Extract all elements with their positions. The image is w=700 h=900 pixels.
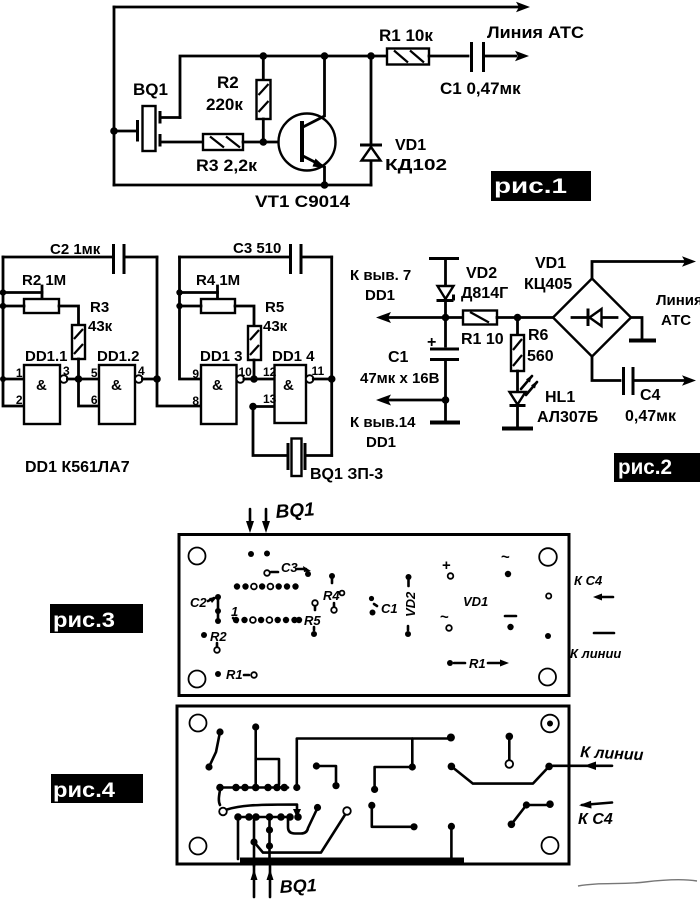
FIG1 [110, 2, 591, 211]
trace row1 [218, 786, 288, 789]
svg-text:КД102: КД102 [385, 157, 447, 174]
wire bridge right terminal [631, 318, 642, 340]
svg-text:0,47мк: 0,47мк [625, 408, 677, 425]
FIG2R [350, 255, 700, 482]
svg-text:DD1 3: DD1 3 [200, 348, 243, 365]
board outline [177, 706, 569, 864]
hole TL [189, 548, 206, 565]
LED HL1 [510, 392, 526, 405]
capacitor C4 [592, 357, 620, 381]
gate DD1.3 [201, 365, 237, 424]
hole TR [539, 548, 557, 566]
svg-text:R3 2,2к: R3 2,2к [196, 156, 257, 175]
svg-text:C3 510: C3 510 [233, 240, 281, 257]
trace diag C4 [508, 821, 516, 829]
label R1 [447, 660, 453, 666]
svg-text:КЦ405: КЦ405 [524, 276, 572, 293]
svg-text:DD1.1: DD1.1 [25, 348, 68, 365]
hole BR [542, 837, 559, 854]
svg-text:+: + [427, 334, 436, 351]
svg-text:R3: R3 [90, 299, 109, 316]
svg-text:R4 1M: R4 1M [196, 272, 240, 289]
svg-text:220к: 220к [206, 95, 243, 114]
label C3 [264, 570, 270, 576]
trace T3 long top [297, 739, 451, 788]
svg-text:рис.2: рис.2 [618, 456, 672, 479]
svg-text:VD1: VD1 [463, 594, 488, 609]
wire DD1.3 input rail [180, 257, 202, 379]
gate DD1.1 [3, 378, 24, 381]
svg-text:R5: R5 [265, 299, 284, 316]
wire left rail [3, 257, 24, 406]
label fig2 box [614, 453, 700, 482]
label R2 [201, 632, 207, 638]
svg-text:DD1: DD1 [365, 287, 395, 304]
svg-text:3: 3 [63, 364, 70, 378]
wire DD1.3 out [244, 378, 275, 381]
crystal BQ1 [287, 443, 290, 470]
minus pad [505, 615, 516, 618]
svg-text:R4: R4 [323, 588, 340, 603]
resistor R3 [203, 134, 243, 150]
node A [260, 52, 268, 60]
trace L lower [368, 802, 375, 809]
transistor VT1 [279, 114, 336, 171]
svg-text:DD1 К561ЛА7: DD1 К561ЛА7 [25, 459, 130, 476]
capacitor C2 [3, 256, 111, 259]
DIP row top [234, 583, 299, 589]
FIG4 [51, 706, 644, 897]
svg-text:R1 10к: R1 10к [379, 26, 433, 45]
label K linii [594, 632, 614, 635]
resistor R4 [180, 291, 218, 294]
bridge VD1 [553, 279, 631, 357]
BQ1 leads [250, 509, 266, 528]
FIG3 [50, 499, 621, 695]
trace through bar [268, 817, 271, 860]
BQ1 leads bottom [254, 866, 270, 897]
resistor R1 [387, 49, 429, 65]
svg-text:рис.3: рис.3 [53, 609, 115, 632]
node R6 [514, 314, 522, 322]
svg-text:R2: R2 [217, 73, 239, 92]
svg-text:~: ~ [440, 609, 449, 626]
capacitor C1 [429, 55, 468, 58]
svg-text:АТС: АТС [661, 312, 691, 329]
svg-text:&: & [212, 377, 223, 394]
svg-text:43к: 43к [88, 318, 113, 335]
svg-text:&: & [283, 377, 294, 394]
zener VD2 [438, 286, 454, 299]
svg-text:BQ1: BQ1 [275, 499, 315, 523]
wire bottom rail [114, 184, 371, 187]
annotation K C4 [582, 803, 612, 806]
trace U shape [288, 809, 317, 834]
wire to pin14 arrow [388, 399, 446, 402]
svg-text:43к: 43к [263, 318, 288, 335]
resistor R3 [72, 325, 85, 359]
svg-text:R1 10: R1 10 [461, 331, 504, 348]
label R5 [312, 600, 318, 606]
svg-text:К выв. 7: К выв. 7 [350, 267, 411, 284]
trace row2 [237, 816, 290, 819]
trace ring curl [219, 790, 220, 805]
svg-text:C1: C1 [381, 601, 398, 616]
wire right rail [330, 257, 333, 456]
svg-text:R2: R2 [210, 629, 227, 644]
svg-text:К выв.14: К выв.14 [350, 414, 416, 431]
node R2/R3/base junction [260, 138, 268, 146]
resistor R2 [262, 56, 265, 80]
svg-text:DD1.2: DD1.2 [97, 348, 140, 365]
svg-text:К линии: К линии [570, 646, 621, 661]
trace to bar [237, 817, 240, 859]
svg-text:К С4: К С4 [574, 573, 603, 588]
svg-text:R2 1M: R2 1M [22, 272, 66, 289]
svg-text:1: 1 [16, 366, 23, 380]
resistor R5 [248, 326, 261, 360]
capacitor C1 [430, 348, 459, 351]
board outline [179, 535, 569, 696]
svg-text:VD2: VD2 [403, 591, 418, 617]
label fig1 box [491, 171, 591, 201]
svg-text:+: + [442, 557, 451, 574]
label fig4 box [51, 774, 143, 803]
svg-text:DD1 4: DD1 4 [272, 348, 315, 365]
svg-text:5: 5 [91, 366, 98, 380]
svg-text:Линия: Линия [656, 292, 700, 309]
svg-text:C3: C3 [281, 560, 298, 575]
svg-text:R5: R5 [304, 613, 321, 628]
crystal BQ1 [114, 130, 136, 133]
svg-text:9: 9 [192, 367, 199, 381]
FIG2L [0, 240, 383, 483]
svg-text:~: ~ [501, 549, 510, 566]
svg-text:BQ1: BQ1 [279, 875, 317, 897]
svg-text:АЛ307Б: АЛ307Б [537, 409, 598, 426]
svg-text:12: 12 [263, 365, 277, 379]
hole BR [539, 669, 556, 686]
svg-text:10: 10 [239, 365, 253, 379]
svg-text:рис.4: рис.4 [53, 779, 115, 802]
svg-text:C2 1мк: C2 1мк [50, 241, 101, 258]
svg-text:&: & [36, 377, 47, 394]
svg-text:HL1: HL1 [545, 389, 575, 406]
svg-text:VD1: VD1 [395, 137, 426, 154]
label R1 left [215, 671, 221, 677]
wire to pin7 arrow [388, 316, 446, 319]
svg-text:&: & [111, 377, 122, 394]
scan artifact squiggle [578, 880, 697, 886]
trace T1 [209, 732, 220, 767]
annotation K linii [553, 764, 612, 767]
svg-text:C2: C2 [190, 595, 207, 610]
node VD2 [442, 314, 450, 322]
hole BL [189, 671, 206, 688]
wire top line to ATC [114, 6, 519, 9]
resistor R2 [3, 291, 42, 294]
svg-text:BQ1: BQ1 [133, 80, 168, 99]
svg-text:BQ1 ЗП-3: BQ1 ЗП-3 [310, 466, 383, 483]
svg-text:11: 11 [312, 364, 325, 378]
trace diag bottom [253, 817, 256, 842]
svg-text:рис.1: рис.1 [494, 175, 567, 198]
svg-text:Линия АТС: Линия АТС [487, 23, 584, 42]
svg-text:VD1: VD1 [535, 255, 566, 272]
right pads [546, 593, 551, 598]
trace T4 [313, 762, 320, 769]
node emitter junction [321, 181, 329, 189]
trace wide V [448, 763, 456, 771]
trace bar feed [448, 823, 455, 830]
svg-text:4: 4 [138, 364, 145, 378]
node B [321, 52, 329, 60]
wire DD1.1 out [67, 378, 99, 381]
ground C1 [430, 421, 460, 425]
svg-text:C1 0,47мк: C1 0,47мк [440, 79, 521, 98]
svg-text:DD1: DD1 [366, 434, 396, 451]
resistor R6 [516, 318, 519, 336]
ground HL1 [502, 427, 533, 431]
hole TL [190, 715, 207, 732]
wire feedback rail [157, 257, 201, 406]
svg-text:C4: C4 [640, 387, 661, 404]
trace T2 [254, 727, 257, 788]
hole TR [541, 715, 559, 733]
svg-text:К С4: К С4 [578, 811, 613, 828]
svg-text:К линии: К линии [580, 744, 644, 764]
DIP row bottom [233, 617, 302, 623]
svg-text:47мк x 16В: 47мк x 16В [360, 370, 440, 387]
svg-text:VT1 C9014: VT1 C9014 [255, 192, 351, 211]
gate DD1.2 [99, 365, 135, 424]
wire bridge top out [592, 262, 684, 279]
wire DD1.2 out [142, 378, 157, 381]
svg-text:R1: R1 [469, 656, 486, 671]
svg-text:8: 8 [192, 394, 199, 408]
svg-text:R6: R6 [528, 327, 549, 344]
pads BQ1 [248, 551, 254, 557]
trace T5 [375, 739, 413, 790]
node C [367, 52, 375, 60]
svg-text:1: 1 [231, 604, 238, 619]
wire second rail [180, 56, 387, 118]
label VD2 [406, 574, 412, 580]
wire Vplus vertical [444, 260, 447, 346]
svg-text:C1: C1 [388, 349, 409, 366]
trace wavy row2 feed [227, 805, 297, 813]
label R4 [329, 573, 335, 579]
hole BL [190, 838, 207, 855]
svg-text:6: 6 [91, 393, 98, 407]
capacitor C3 [180, 256, 289, 259]
svg-text:560: 560 [527, 348, 554, 365]
resistor R1 [446, 316, 464, 319]
gate DD1.4 [275, 365, 307, 423]
trace vertical pair right [506, 733, 514, 741]
svg-text:13: 13 [263, 392, 277, 406]
copper bar [240, 858, 464, 866]
label fig3 box [50, 604, 143, 633]
svg-text:Д814Г: Д814Г [461, 285, 508, 302]
wire DD1.4 out [313, 378, 331, 381]
wire left rail [113, 7, 116, 185]
svg-text:VD2: VD2 [466, 265, 497, 282]
svg-text:R1: R1 [226, 667, 243, 682]
svg-text:2: 2 [16, 393, 23, 407]
label C1 [369, 596, 374, 601]
diode VD1 [370, 56, 373, 144]
wire pin13 [253, 405, 275, 408]
